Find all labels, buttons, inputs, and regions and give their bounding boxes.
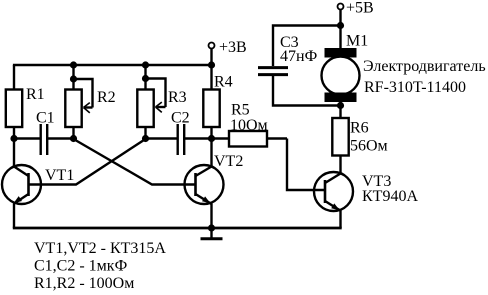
- wire cross coupling C1 to VT2 base: [74, 139, 197, 185]
- node dot +5V branch: [337, 22, 344, 29]
- svg-text:VT1,VT2 - КТ315А: VT1,VT2 - КТ315А: [34, 240, 166, 257]
- wire R1 to C1: [14, 137, 40, 139]
- node dot R4/C2/R5/VT2 junction: [208, 135, 215, 142]
- wire R5 to VT3 base: [287, 139, 325, 191]
- svg-text:КТ940А: КТ940А: [362, 188, 418, 205]
- svg-text:56Ом: 56Ом: [350, 138, 388, 155]
- svg-text:47нФ: 47нФ: [280, 48, 317, 65]
- transistor VT1: [2, 139, 41, 229]
- resistor R1: [6, 65, 22, 139]
- capacitor C2: [178, 124, 185, 155]
- svg-text:+5В: +5В: [346, 0, 374, 17]
- potentiometer R2: [65, 65, 92, 139]
- transistor VT3: [314, 172, 353, 228]
- svg-text:RF-310T-11400: RF-310T-11400: [364, 79, 466, 96]
- svg-text:+3В: +3В: [219, 39, 247, 56]
- node dot top of R3: [142, 61, 149, 68]
- svg-text:R3: R3: [168, 89, 187, 106]
- terminal +3V: [209, 43, 215, 66]
- node dot C1/R2/cross junction: [70, 135, 77, 142]
- svg-text:R1,R2 - 100Ом: R1,R2 - 100Ом: [34, 275, 134, 292]
- node dot R3/C2/cross junction: [142, 135, 149, 142]
- wire cross coupling C2 to VT1 base: [29, 139, 146, 185]
- transistor VT2: [185, 139, 224, 229]
- svg-text:R1: R1: [26, 86, 45, 103]
- wire C1 to R2 bottom: [48, 137, 74, 139]
- svg-text:VT1: VT1: [45, 167, 74, 184]
- wire C3 bottom to motor bottom: [273, 76, 341, 106]
- svg-text:M1: M1: [346, 33, 368, 50]
- node dot ground junction: [208, 224, 215, 231]
- wire C2 to R4 bottom: [185, 137, 212, 139]
- svg-text:10Ом: 10Ом: [230, 117, 268, 134]
- resistor R5: [212, 131, 288, 147]
- resistor R4: [203, 65, 219, 139]
- wire: top +3V rail: [13, 64, 212, 66]
- svg-text:R2: R2: [97, 89, 116, 106]
- svg-text:C1: C1: [36, 110, 55, 127]
- motor M1: [322, 26, 360, 119]
- svg-text:R5: R5: [231, 102, 250, 119]
- svg-text:VT2: VT2: [214, 153, 243, 170]
- svg-text:R4: R4: [214, 74, 233, 91]
- svg-text:R6: R6: [350, 120, 369, 137]
- wire R3 bottom to C2: [146, 137, 177, 139]
- node dot R1/C1/VT1 junction: [10, 135, 17, 142]
- svg-text:C1,C2 - 1мкФ: C1,C2 - 1мкФ: [34, 258, 127, 275]
- node dot top of R2: [70, 61, 77, 68]
- ground: [201, 228, 223, 239]
- node dot top of R4: [208, 61, 215, 68]
- wire bottom ground rail: [13, 227, 342, 230]
- potentiometer R3: [137, 65, 165, 139]
- capacitor C3: [258, 68, 288, 75]
- capacitor C1: [41, 124, 48, 155]
- resistor R6: [332, 118, 348, 174]
- svg-text:C2: C2: [171, 110, 190, 127]
- svg-text:Электродвигатель: Электродвигатель: [363, 58, 486, 75]
- node dot motor/C3 junction: [337, 102, 344, 109]
- wire to C3 top: [273, 26, 341, 67]
- terminal +5V: [338, 4, 344, 26]
